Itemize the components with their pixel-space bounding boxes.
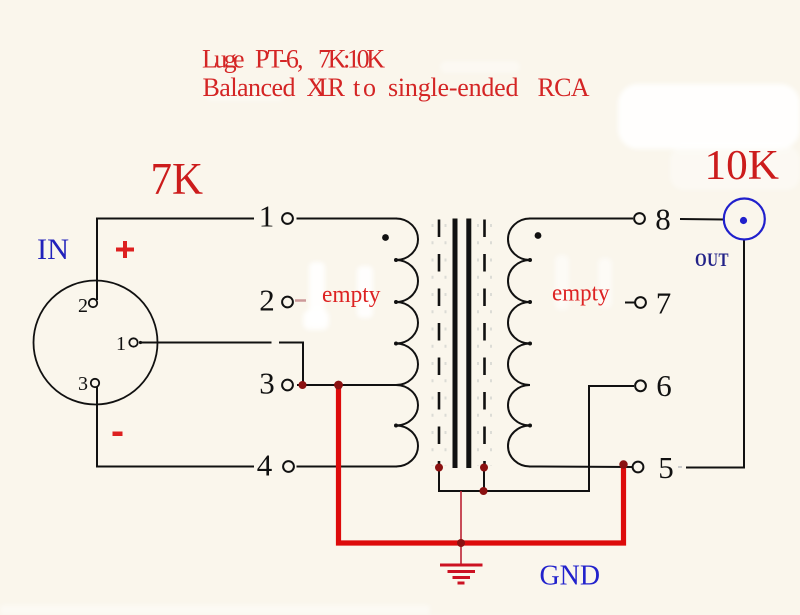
svg-text:6: 6	[656, 368, 672, 403]
svg-text:empty: empty	[552, 281, 610, 307]
svg-text:LugePT-6,7K:10K: LugePT-6,7K:10K	[202, 45, 385, 74]
svg-text:OUT: OUT	[695, 249, 729, 270]
svg-text:IN: IN	[37, 233, 69, 266]
svg-text:4: 4	[257, 448, 273, 483]
svg-text:8: 8	[655, 202, 671, 237]
svg-text:10K: 10K	[705, 143, 780, 189]
svg-text:1: 1	[259, 199, 275, 234]
svg-text:7K: 7K	[151, 154, 204, 204]
svg-text:2: 2	[78, 295, 88, 317]
svg-text:2: 2	[259, 283, 275, 318]
svg-text:7: 7	[656, 286, 672, 321]
svg-text:5: 5	[658, 450, 674, 485]
svg-text:3: 3	[259, 366, 275, 401]
svg-text:empty: empty	[322, 282, 381, 308]
svg-text:GND: GND	[540, 560, 601, 592]
svg-text:3: 3	[78, 373, 88, 395]
svg-text:1: 1	[116, 333, 126, 355]
